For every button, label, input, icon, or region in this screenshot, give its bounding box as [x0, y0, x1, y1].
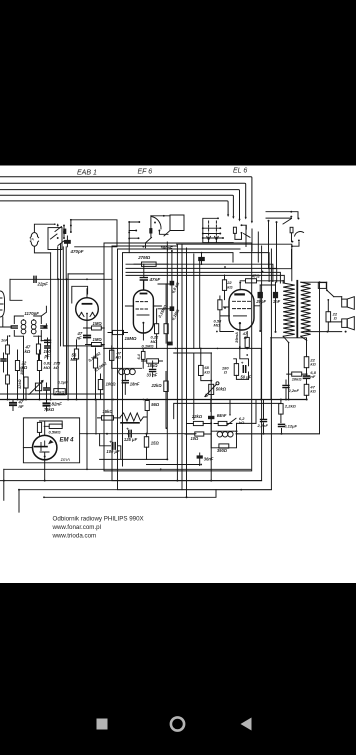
tube EL6 envelope — [229, 290, 254, 330]
wires 47k/100pF — [39, 336, 48, 361]
switch S1 contacts — [57, 225, 59, 227]
potentiometer wiper — [29, 381, 43, 395]
winding OPT secondary — [301, 282, 311, 336]
mid block wires — [185, 424, 211, 466]
capacitor 50uF — [243, 366, 245, 373]
wire bottom link — [147, 458, 168, 460]
capacitor cap 0,1uF — [44, 388, 50, 390]
EF6 cathode bar — [137, 314, 149, 316]
AF choke wire — [112, 367, 142, 369]
speaker 1 — [342, 299, 348, 307]
wire snubber top — [260, 284, 275, 286]
svg-text:1MΩ: 1MΩ — [93, 337, 103, 342]
svg-text:nF: nF — [19, 404, 25, 409]
bus wire L2 — [0, 183, 246, 218]
boxed label 75k — [54, 389, 66, 395]
shield loop C — [118, 249, 272, 490]
EL6 side leads — [223, 306, 260, 307]
wire above HT bus — [0, 393, 104, 395]
svg-text:nF: nF — [310, 374, 315, 379]
coil IFT1 primary — [21, 320, 26, 325]
svg-text:56Ω: 56Ω — [151, 402, 160, 407]
S3 wiring — [269, 221, 300, 269]
capacitor 390pF solid — [198, 257, 205, 261]
svg-text:22kΩ: 22kΩ — [151, 383, 163, 388]
resistor 18k — [147, 359, 159, 363]
0,58M leads — [220, 296, 234, 332]
wire HT second rail — [174, 400, 281, 419]
svg-text:12kΩ: 12kΩ — [17, 379, 22, 389]
capacitor solid black — [208, 416, 214, 419]
tube EM4 target anode — [35, 446, 47, 448]
capacitor 22pF — [34, 276, 36, 282]
capacitor IFT cap b — [45, 340, 51, 342]
wire drop x193 — [193, 254, 195, 420]
wire bottom link 2 — [147, 464, 200, 466]
capacitor 20pF solid — [258, 292, 263, 298]
resistor R left 2 — [6, 375, 10, 384]
capacitor 2,2nF r — [283, 385, 289, 387]
wire v x230 — [229, 400, 231, 415]
IFT1 left bracket — [14, 316, 23, 336]
bottom bus 4 — [44, 490, 216, 498]
wire drop x167 — [166, 242, 168, 348]
resistor 56M — [74, 349, 78, 359]
svg-text:MΩ: MΩ — [44, 365, 51, 370]
wire 27M leads — [134, 263, 168, 265]
svg-text:kΩ: kΩ — [116, 355, 122, 360]
wires res row2 — [77, 340, 96, 400]
AF row wires — [101, 361, 167, 428]
svg-text:+: + — [109, 439, 112, 444]
bottom bus 1 — [4, 468, 251, 470]
EF6 grid top lead — [142, 281, 144, 290]
capacitor 6,8nF — [304, 376, 310, 378]
S2 wires right — [151, 216, 170, 235]
tube (cropped) at left edge — [0, 291, 5, 317]
tube EL6 grids — [233, 301, 251, 308]
OPT secondary bottom lead — [301, 336, 307, 340]
resistor 12k — [24, 377, 28, 388]
svg-text:15MΩ: 15MΩ — [125, 336, 138, 341]
svg-text:EAB 1: EAB 1 — [77, 170, 97, 177]
top letterbox bar — [0, 0, 356, 166]
OPT bottom link wire — [271, 338, 307, 341]
EM4 left lead — [23, 447, 32, 449]
wire EAB1 bottom — [64, 345, 105, 347]
tube EM4 envelope — [33, 435, 57, 459]
svg-text:22pF: 22pF — [37, 281, 49, 286]
wire tone to right edge — [237, 433, 320, 435]
OPT secondary top lead — [301, 281, 327, 283]
resistor 56R — [145, 401, 149, 411]
wire h3 cascade — [240, 253, 269, 282]
bottom bus left drops — [4, 469, 19, 512]
capacitor 100pF — [45, 346, 51, 348]
S2 box leads — [150, 216, 152, 238]
resistor 22k a — [15, 361, 19, 371]
resistor 100R — [98, 380, 102, 390]
switch S2 contacts — [128, 221, 130, 223]
EM4 cathode down — [44, 460, 46, 481]
svg-text:82nF: 82nF — [52, 401, 63, 406]
svg-text:33 nF: 33 nF — [147, 373, 158, 378]
wire h7 cascade — [177, 244, 292, 281]
wire h6 cascade — [126, 272, 280, 283]
svg-text:39mA: 39mA — [234, 332, 239, 343]
svg-text:6,4: 6,4 — [137, 353, 141, 359]
coil AF choke loops — [119, 369, 125, 375]
wire left tube link — [10, 279, 22, 300]
wire EF6 grid cap — [143, 264, 145, 290]
capacitor 470pF solid — [64, 240, 71, 244]
svg-text:2,2nF: 2,2nF — [288, 388, 300, 393]
IFT1 right bracket — [34, 316, 42, 336]
shield loop A — [104, 243, 252, 471]
svg-text:kΩ: kΩ — [54, 365, 60, 370]
EF6 cathode lead — [142, 323, 144, 340]
wire long mid — [104, 348, 261, 399]
IFT1 leads — [0, 306, 46, 327]
snubber wires — [260, 282, 275, 332]
47R leads — [240, 280, 272, 282]
nav square button — [97, 719, 108, 730]
tone coil loops — [217, 432, 222, 437]
tuning capacitor dashed linkage — [208, 221, 210, 243]
S4 wiring — [235, 225, 246, 239]
resistor 22k EL6 — [222, 280, 226, 291]
tube EAB1 anode — [83, 303, 92, 305]
capacitor mid solid — [167, 342, 172, 346]
resistor 2,2k — [279, 404, 283, 415]
tube EF6 top cap — [141, 293, 147, 295]
tube EL6 top bar — [235, 293, 243, 295]
speaker wiring — [328, 297, 341, 331]
speaker 2 — [342, 319, 348, 328]
switch S2 main wire — [128, 222, 130, 253]
resistor R left 1 — [6, 345, 10, 354]
svg-text:10kΩ: 10kΩ — [292, 376, 303, 381]
svg-text:nF: nF — [77, 335, 83, 340]
capacitor 33nF — [150, 369, 156, 371]
EL6 cathode lead — [239, 323, 241, 347]
coil IFT1 secondary — [31, 320, 36, 325]
wires caps b — [13, 400, 47, 412]
svg-text:10Ω: 10Ω — [191, 436, 200, 441]
svg-text:kΩ: kΩ — [310, 362, 316, 367]
resistor 0,22M — [155, 324, 159, 334]
left edge wires — [4, 336, 8, 399]
capacitor C left 1 — [1, 359, 6, 361]
capacitor 100uF — [113, 443, 115, 450]
resistor 0,15M — [164, 324, 168, 334]
shield loop B — [112, 246, 262, 481]
svg-text:100 μF: 100 μF — [106, 449, 120, 454]
capacitor IFT1 trimmer 2 — [41, 326, 47, 328]
speaker selector switch — [326, 282, 328, 290]
bottom bus 2 — [0, 480, 262, 482]
resistor 0,58M — [218, 300, 222, 310]
wire drop group B — [246, 226, 258, 262]
wire drop x167 lower — [166, 348, 168, 459]
component box B2 solid — [149, 228, 152, 233]
resistor 1M a — [92, 326, 102, 330]
shield loop D — [123, 253, 234, 466]
resistor 47R anode stop — [246, 279, 257, 283]
EL6 cathode bar — [234, 315, 247, 317]
winding OPT primary — [283, 283, 295, 336]
right RC wires — [286, 341, 307, 400]
S3 wires top — [266, 212, 298, 219]
capacitor 47nF det — [84, 335, 91, 337]
switch S4 contacts — [202, 227, 204, 229]
68nF leads — [214, 423, 232, 425]
svg-text:TA: TA — [29, 236, 34, 241]
50k pot wiper arrow — [205, 385, 216, 397]
svg-text:0,5MΩ: 0,5MΩ — [49, 429, 62, 434]
svg-text:kΩ: kΩ — [204, 369, 210, 374]
OPT core — [296, 281, 298, 337]
wire drop x186 — [186, 248, 188, 348]
wire h4 cascade — [126, 264, 273, 281]
wire v x271 — [270, 338, 272, 400]
svg-text:kΩ: kΩ — [227, 284, 233, 289]
EAB1 grid shield — [72, 286, 88, 303]
svg-text:125 μF: 125 μF — [124, 437, 138, 442]
svg-text:EF 6: EF 6 — [138, 169, 153, 176]
47k b leads — [111, 346, 113, 368]
svg-text:0,1MΩ: 0,1MΩ — [142, 344, 155, 349]
tone network frame — [211, 423, 236, 447]
svg-text:EM 4: EM 4 — [60, 438, 75, 444]
wire EAB1 cathode return — [86, 346, 88, 469]
svg-text:50 μF: 50 μF — [241, 375, 252, 380]
capacitor EF6 a solid — [170, 281, 175, 286]
svg-text:470pF: 470pF — [70, 249, 84, 254]
svg-text:Odbiornik radiowy PHILIPS 990X: Odbiornik radiowy PHILIPS 990X — [53, 516, 144, 523]
tube EAB1 envelope — [76, 298, 99, 321]
tube EM4 cathode — [40, 452, 49, 459]
svg-text:1nF: 1nF — [273, 299, 281, 304]
resistor 22k b — [164, 381, 168, 392]
rheostat zigzag — [120, 413, 143, 421]
tube EAB1 diode plates — [81, 312, 83, 314]
resistor 15R — [144, 437, 148, 448]
right edge loop — [237, 282, 320, 434]
switch S3 contacts — [290, 211, 292, 213]
capacitor 47nF b — [10, 403, 16, 405]
resistor 0,39M — [93, 358, 97, 368]
S4 frame bracket — [203, 218, 233, 242]
svg-text:36nF: 36nF — [204, 457, 214, 462]
resistor pot body — [35, 383, 41, 391]
resistor 47k b — [110, 350, 114, 360]
svg-text:1MΩ: 1MΩ — [93, 321, 103, 326]
component box B1 solid — [63, 229, 66, 234]
switch S2 rotor arc — [152, 217, 161, 229]
S4 contact stubs — [203, 228, 223, 238]
EF6 side leads — [125, 305, 161, 307]
wires res row — [18, 350, 40, 399]
capacitor 82nF — [43, 403, 49, 405]
capacitor 18nF — [122, 381, 128, 383]
svg-text:75kΩ: 75kΩ — [44, 407, 55, 412]
resistor 50k pot — [209, 384, 214, 394]
OPT primary top lead — [272, 281, 283, 283]
wire h5 cascade — [126, 268, 277, 282]
speaker jumper box — [318, 283, 326, 289]
6,4k leads — [142, 348, 144, 368]
wire h7 — [68, 273, 104, 275]
EL6 grid top lead — [239, 283, 241, 290]
tube EAB1 leads — [86, 289, 88, 345]
resistor 390R — [219, 444, 229, 448]
svg-text:EL 6: EL 6 — [233, 168, 247, 175]
resistor 0,82M — [37, 361, 41, 371]
capacitor 47nF grid — [140, 278, 147, 280]
cathode RC wires — [201, 347, 249, 481]
switch S1 outer loop — [71, 220, 117, 247]
capacitor 2,2nF c — [261, 419, 267, 421]
svg-text:15kΩ: 15kΩ — [102, 409, 113, 414]
svg-text:www.trioda.com: www.trioda.com — [52, 533, 97, 540]
resistor 10R — [195, 432, 204, 436]
wire drop x199 — [199, 258, 201, 348]
junction dots — [86, 278, 88, 280]
wire drop x182 — [181, 245, 183, 348]
svg-text:47Ω: 47Ω — [251, 274, 261, 279]
svg-text:390Ω: 390Ω — [217, 448, 228, 453]
svg-text:68nF: 68nF — [217, 413, 227, 418]
wire drop x177 — [176, 245, 178, 348]
nav home circle button — [171, 717, 184, 730]
wire drop x186 lower — [186, 348, 188, 497]
bus wire L1 — [0, 177, 252, 222]
OPT primary bottom lead — [283, 336, 288, 399]
capacitor 0,12uF — [279, 424, 285, 426]
switch S1 levers — [51, 227, 65, 246]
resistor 47k r — [304, 384, 309, 395]
S4 box — [233, 227, 236, 233]
tube EM4 shadow wedge — [48, 440, 54, 445]
tone coil top wire — [217, 430, 234, 432]
S3 component box — [290, 227, 293, 233]
svg-text:18nF: 18nF — [130, 382, 140, 387]
svg-text:www.fonar.com.pl: www.fonar.com.pl — [52, 524, 102, 531]
capacitor 36nF solid — [197, 455, 203, 458]
wire v x66 — [66, 279, 68, 394]
6,2k pot arrow — [228, 418, 237, 424]
S3 lever — [283, 219, 304, 237]
S4 lever — [244, 234, 251, 238]
S2 frame box — [164, 215, 184, 236]
22k EL6 leads — [224, 275, 226, 300]
15M leads — [108, 332, 128, 334]
wire h6b cascade — [126, 275, 284, 283]
bus wire arrowheads — [251, 221, 253, 224]
svg-text:20pF: 20pF — [255, 299, 266, 304]
resistor 27M — [142, 262, 157, 266]
cropped tube lead — [2, 317, 4, 327]
S2 contact stubs — [129, 222, 139, 238]
EF6 column stubs — [158, 284, 170, 309]
EM4 enclosure box — [23, 418, 79, 463]
tuning linkage arrows — [207, 236, 218, 240]
resistor 15M — [113, 330, 124, 334]
wire drop x177 lower — [176, 348, 178, 480]
capacitor IFT1 trimmer 1 — [11, 326, 17, 328]
svg-text:1MΩ: 1MΩ — [19, 367, 24, 375]
bus wire L5 — [0, 201, 228, 216]
lower right wires b — [263, 400, 265, 434]
svg-text:15Ω: 15Ω — [151, 441, 160, 446]
lower right wires a — [280, 414, 283, 434]
IFT bottom wires — [41, 336, 47, 344]
wires det network — [84, 328, 105, 345]
svg-text:kΩ: kΩ — [239, 420, 245, 425]
wire h1 — [10, 278, 112, 280]
electrolytic wires — [100, 434, 147, 460]
wires pot area — [26, 383, 47, 399]
svg-text:1mA: 1mA — [61, 457, 70, 462]
speaker return wire — [306, 331, 342, 333]
bus wire L3 — [0, 190, 240, 220]
resistor 68nF box — [218, 421, 227, 425]
svg-text:kΩ: kΩ — [25, 349, 31, 354]
wire TA to switch — [34, 224, 54, 231]
resistor 47k — [36, 344, 40, 354]
TA pickup input jack — [30, 233, 38, 238]
svg-text:+: + — [126, 426, 129, 431]
svg-text:100Ω: 100Ω — [106, 381, 117, 386]
S3 wire mid — [276, 222, 278, 269]
svg-text:kΩ: kΩ — [310, 389, 316, 394]
wire v x210 — [210, 400, 212, 412]
capacitor EF6 b solid — [170, 306, 175, 311]
rheostat wires — [98, 400, 148, 434]
wire drop x182 lower — [181, 348, 183, 489]
resistor 22R — [326, 312, 331, 322]
resistor 22k r — [304, 357, 309, 368]
svg-text:27MΩ: 27MΩ — [137, 255, 151, 260]
bottom letterbox bar — [0, 583, 356, 750]
HT bus wire — [0, 399, 307, 401]
svg-text:2,2kΩ: 2,2kΩ — [284, 404, 297, 409]
bus wire L4 — [0, 195, 233, 217]
wire to tone box top — [237, 400, 257, 424]
switch S1 frame box — [48, 228, 62, 250]
tube EF6 envelope — [133, 290, 153, 333]
nav back triangle button — [241, 718, 252, 731]
svg-text:22kΩ: 22kΩ — [191, 414, 203, 419]
resistor 47R k — [245, 337, 249, 347]
resistor 180R — [234, 364, 238, 376]
EM4 wiring — [40, 421, 63, 436]
47R k leads — [246, 332, 248, 349]
S2 lever — [146, 237, 152, 247]
resistor 15k — [102, 416, 114, 420]
resistor 68k — [199, 365, 204, 375]
wire IFT1 down — [23, 336, 25, 399]
50k pot leads — [174, 353, 212, 400]
svg-text:1170pF: 1170pF — [24, 311, 39, 316]
S1 stubs — [58, 220, 71, 238]
resistor 10k — [292, 372, 302, 376]
resistor 22k c — [193, 421, 203, 425]
capacitor 125uF — [129, 430, 131, 437]
svg-text:50kΩ: 50kΩ — [216, 386, 227, 391]
capacitor 1nF solid — [273, 292, 278, 298]
